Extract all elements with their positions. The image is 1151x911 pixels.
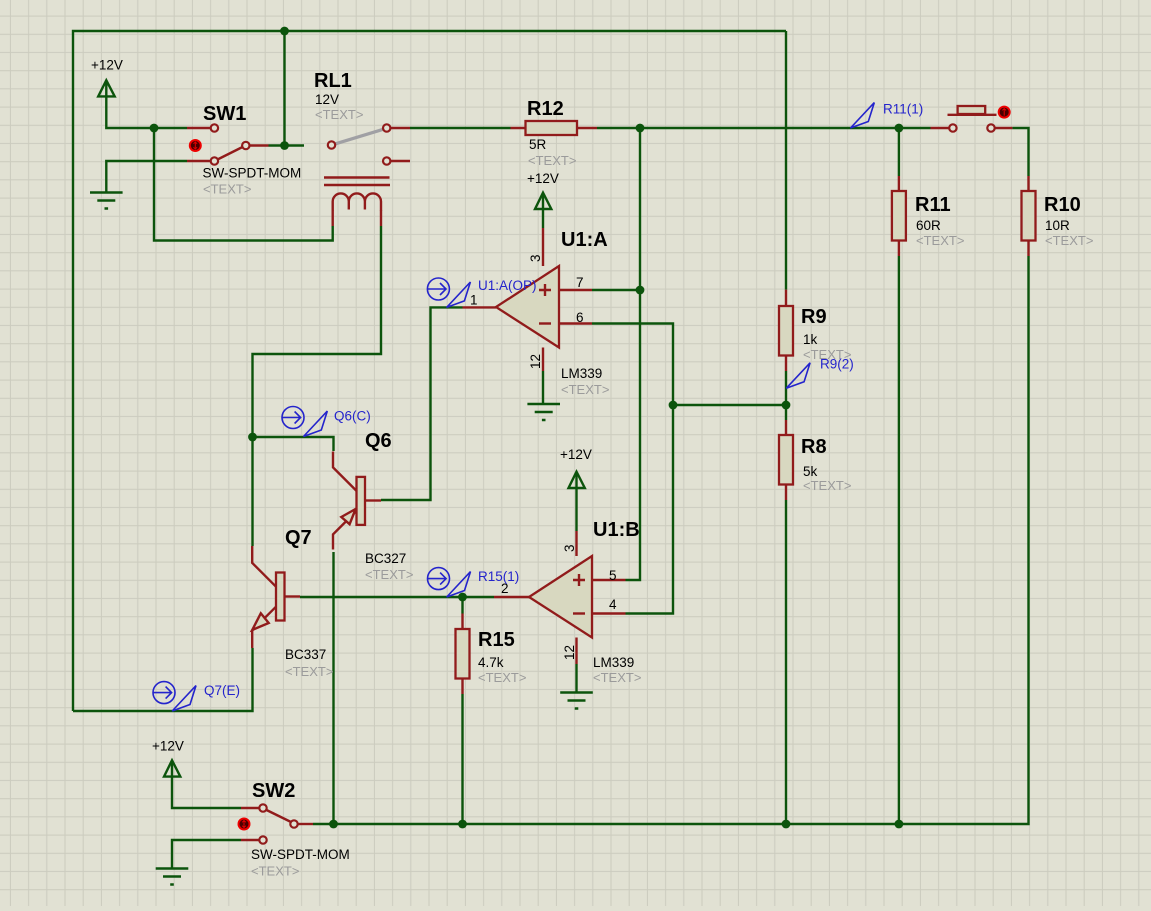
U1:B pin5 stub (592, 579, 626, 581)
junction node dot bottom net 333.5,824 (329, 820, 338, 829)
wire +12V arrow to SW1 top throw (106, 82, 187, 128)
wire R11 bottom (898, 256, 900, 824)
svg-text:3: 3 (562, 544, 577, 552)
Q7 emitter lead (252, 607, 276, 648)
junction node dot top rail x284 (280, 27, 289, 36)
svg-text:<TEXT>: <TEXT> (561, 382, 609, 397)
svg-text:SW-SPDT-MOM: SW-SPDT-MOM (203, 166, 302, 181)
Q6 base bar (357, 477, 366, 525)
SW2 state marker dot (238, 818, 251, 831)
svg-text:U1:A(OP): U1:A(OP) (478, 278, 537, 293)
svg-text:SW2: SW2 (252, 780, 295, 802)
svg-text:R12: R12 (527, 98, 564, 120)
U1:B pin12 stub (575, 638, 577, 665)
svg-text:R10: R10 (1044, 194, 1081, 216)
svg-text:SW-SPDT-MOM: SW-SPDT-MOM (251, 847, 350, 862)
Q6 base lead (365, 499, 381, 501)
svg-text:+12V: +12V (152, 739, 184, 754)
wire SW2 common to bottom net (313, 256, 1029, 824)
Q7 base lead (285, 595, 301, 597)
ground symbol (U1:A pin12) (527, 404, 560, 420)
junction node dot 673,405 (669, 401, 678, 410)
wire R12 right to push button, main top net (597, 127, 931, 129)
svg-text:12V: 12V (315, 92, 339, 107)
wire U1:A pin12 to ground (542, 371, 544, 405)
svg-text:+12V: +12V (91, 58, 123, 73)
wire Q7 collector up to node (251, 437, 253, 546)
wire U1:A pin7 to vertical node (592, 289, 640, 291)
junction node dot bottom net 898.9,824 (895, 820, 904, 829)
svg-text:<TEXT>: <TEXT> (315, 107, 363, 122)
wire divider node horizontal to R9/R8 midpoint (673, 404, 786, 406)
svg-text:6: 6 (576, 310, 584, 325)
transistor Q7 BC337 (NPN) (252, 546, 300, 648)
resistor R12 (5R) horizontal (511, 121, 598, 135)
resistor R15 (4.7k) (456, 614, 470, 695)
ground symbol (SW1) (90, 193, 123, 209)
svg-text:Q6(C): Q6(C) (334, 409, 371, 424)
wire SW2 bottom throw to ground (172, 840, 241, 869)
junction node dot 640,128 (636, 124, 645, 133)
op-amp U1:B LM339 (494, 556, 626, 664)
wire R15 bottom to bottom net (461, 694, 463, 824)
SW1 state marker dot (189, 139, 202, 152)
ground symbol (SW2) (156, 869, 189, 885)
svg-text:R11(1): R11(1) (883, 102, 923, 117)
U1:A pin7 stub (559, 289, 592, 291)
svg-text:Q6: Q6 (365, 430, 392, 452)
op-amp U1:A LM339 (463, 266, 593, 371)
resistor R9 (1k) (779, 290, 793, 371)
svg-text:<TEXT>: <TEXT> (285, 664, 333, 679)
svg-text:LM339: LM339 (593, 655, 634, 670)
Q6 emitter lead (333, 511, 357, 550)
svg-text:<TEXT>: <TEXT> (803, 478, 851, 493)
probe R15(1) circle (428, 568, 471, 597)
probe U1:A(OP) flag (447, 282, 471, 307)
wire Q7 base to U1:B output node (300, 596, 494, 598)
Q7 base bar (276, 573, 285, 621)
svg-text:Q7: Q7 (285, 527, 312, 549)
button state marker dot (998, 106, 1011, 119)
probe R9(2) flag (786, 363, 810, 388)
wire U1:A output pin1 left and down to Q6 base (381, 307, 463, 500)
svg-text:R9: R9 (801, 306, 827, 328)
wire Q7 emitter down and left to left rail (73, 648, 253, 711)
svg-text:4: 4 (609, 597, 617, 612)
power +12V symbol (above SW2) (164, 760, 180, 776)
junction node dot SW1 common 284.5,145.5 (280, 141, 289, 150)
probe Q6(C) flag (304, 411, 328, 436)
wire SW1 common to RL1 pole (269, 144, 305, 146)
svg-text:<TEXT>: <TEXT> (478, 670, 526, 685)
svg-text:+12V: +12V (527, 171, 559, 186)
switch SW1 SW-SPDT-MOM (187, 124, 269, 164)
junction node dot 154,128 (150, 124, 159, 133)
relay RL1 (324, 124, 410, 226)
Q7 collector lead (252, 546, 276, 587)
svg-text:<TEXT>: <TEXT> (365, 567, 413, 582)
junction node dot U1:B output 462.5,597 (458, 593, 467, 602)
power +12V symbol (top left) (98, 80, 115, 96)
svg-text:+12V: +12V (560, 447, 592, 462)
wire R9 bottom to node (785, 371, 787, 420)
svg-text:5: 5 (609, 568, 617, 583)
U1:B pin4 stub (592, 612, 626, 614)
svg-text:1: 1 (470, 293, 478, 308)
push button (top right) (931, 106, 1013, 132)
junction node dot 898.9,128 (895, 124, 904, 133)
svg-text:U1:A: U1:A (561, 229, 608, 251)
resistor R8 (5k) (779, 420, 793, 500)
svg-text:12: 12 (562, 645, 577, 660)
svg-text:SW1: SW1 (203, 103, 246, 125)
svg-text:R9(2): R9(2) (820, 357, 854, 372)
svg-text:<TEXT>: <TEXT> (1045, 233, 1093, 248)
svg-text:5k: 5k (803, 464, 818, 479)
svg-text:3: 3 (528, 254, 543, 262)
resistor R11 (60R) (892, 176, 906, 256)
svg-text:7: 7 (576, 275, 584, 290)
wire SW2 +12V arrow to top throw (172, 762, 241, 808)
Q7 emitter arrow (252, 613, 269, 630)
wire top horizontal net VCC-SW loop (73, 31, 786, 711)
U1:B - symbol (573, 612, 585, 614)
svg-text:RL1: RL1 (314, 70, 352, 92)
switch SW2 SW-SPDT-MOM (238, 804, 314, 843)
junction node dot collector node 252.5,437 (248, 433, 257, 442)
Q6 emitter arrow (341, 509, 355, 524)
junction node dot bottom net 786,824 (782, 820, 791, 829)
wire U1:B +12V arrow to pin3 (575, 474, 577, 532)
svg-text:1k: 1k (803, 332, 818, 347)
wire junction 154,128 down to relay coil left pin (154, 128, 333, 241)
wire R8 bottom to bottom net (785, 500, 787, 824)
wire SW1 bottom throw to ground (106, 161, 187, 193)
probe U1:A(OP) circle (427, 278, 470, 307)
probe Q7(E) circle (153, 682, 196, 711)
U1:A pin6 stub (559, 322, 592, 324)
U1:A pin1 output stub (463, 306, 497, 308)
svg-text:R11: R11 (915, 194, 951, 216)
wire R11 top lead from top net (898, 128, 900, 176)
wire R15 top to output node (461, 597, 463, 614)
wire Q6 emitter down to bottom net (332, 552, 334, 824)
junction node dot bottom net 462.5,824 (458, 820, 467, 829)
Q6 collector lead (333, 452, 357, 491)
U1:A pin12 stub (542, 348, 544, 372)
svg-text:BC327: BC327 (365, 551, 406, 566)
junction node dot divider mid 786,405 (782, 401, 791, 410)
wire relay coil right pin down and left to Q6/Q7 collector node (253, 226, 382, 437)
probe Q6(C) circle (282, 407, 327, 437)
probe R15(1) flag (447, 572, 471, 597)
power +12V symbol (above U1:B) (569, 472, 585, 488)
RL1 switch arm (gray) (336, 130, 383, 144)
U1:B + symbol (573, 574, 585, 586)
wire U1:A +12V arrow to pin3 (542, 195, 544, 229)
svg-text:10R: 10R (1045, 218, 1070, 233)
wire R9 top from top rail (785, 31, 787, 290)
RL1 coil pins (333, 210, 381, 226)
svg-text:12: 12 (528, 354, 543, 369)
wire U1:B pin12 to ground (575, 664, 577, 693)
svg-text:<TEXT>: <TEXT> (203, 182, 251, 197)
wire main vertical x=640 from top net to U1:B pin5 (626, 128, 641, 580)
svg-text:R15: R15 (478, 629, 515, 651)
svg-text:60R: 60R (916, 218, 941, 233)
U1:A - symbol (539, 322, 551, 324)
wire collector node to Q6 collector (253, 437, 334, 451)
U1:A + symbol (539, 284, 551, 296)
svg-text:<TEXT>: <TEXT> (916, 233, 964, 248)
probe Q7(E) flag (172, 686, 196, 711)
transistor Q6 BC327 (PNP) (333, 452, 381, 550)
svg-text:BC337: BC337 (285, 647, 326, 662)
svg-text:<TEXT>: <TEXT> (251, 864, 299, 879)
svg-text:LM339: LM339 (561, 366, 602, 381)
wire U1:A pin6 right and down to divider node (592, 324, 673, 614)
svg-text:U1:B: U1:B (593, 519, 640, 541)
svg-text:<TEXT>: <TEXT> (528, 153, 576, 168)
svg-text:<TEXT>: <TEXT> (593, 670, 641, 685)
junction node dot U1:A pin7 640,290 (636, 286, 645, 295)
power +12V symbol (above U1:A) (535, 193, 551, 209)
RL1 core plates (324, 178, 390, 186)
svg-text:5R: 5R (529, 137, 547, 152)
svg-text:Q7(E): Q7(E) (204, 683, 240, 698)
U1:B pin2 output stub (494, 596, 529, 598)
RL1 coil (333, 193, 381, 210)
svg-text:R8: R8 (801, 436, 827, 458)
wire RL1 top throw to R12 left (410, 127, 511, 129)
wire vertical from top rail to SW1 common junction (283, 31, 285, 146)
svg-text:R15(1): R15(1) (478, 569, 519, 584)
wire push button right to R10 top (1012, 128, 1028, 176)
ground symbol (U1:B pin12) (560, 693, 593, 709)
probe R11(1) flag (851, 103, 875, 128)
resistor R10 (10R) (1022, 176, 1036, 256)
svg-text:4.7k: 4.7k (478, 655, 504, 670)
